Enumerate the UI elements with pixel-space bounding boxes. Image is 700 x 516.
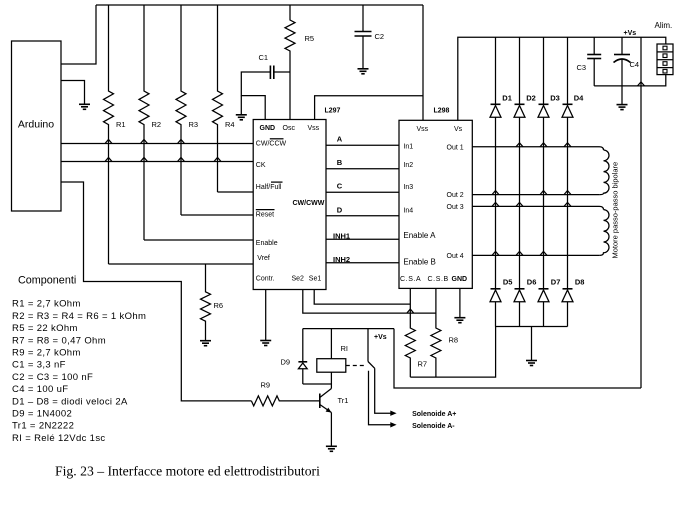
- svg-text:D8: D8: [575, 278, 585, 287]
- driver-chip L298 U2: [399, 120, 472, 288]
- resistor R3: [176, 5, 186, 215]
- wire connector bottom to C3 bottom: [594, 75, 666, 86]
- wire hop on C3 bottom wire at +Vs vertical: [638, 82, 645, 86]
- resistor R2: [139, 5, 149, 240]
- svg-text:R5 = 22 kOhm: R5 = 22 kOhm: [12, 323, 78, 334]
- ground (Contr.): [260, 341, 271, 346]
- wire Arduino top to +5V rail: [61, 5, 96, 64]
- wire Vss net L297 to L298: [315, 96, 423, 120]
- diode D1: [495, 37, 497, 104]
- diode D5: [491, 288, 501, 290]
- wire emitter to ground: [330, 413, 332, 447]
- wire hop on Out3 at D2: [516, 202, 523, 206]
- op-chip L297 U1: [253, 120, 326, 290]
- svg-text:C.S.B: C.S.B: [428, 276, 449, 283]
- svg-text:D1 – D8 = diodi veloci 2A: D1 – D8 = diodi veloci 2A: [12, 396, 128, 407]
- svg-text:+Vs: +Vs: [624, 30, 637, 37]
- svg-text:R2 = R3 = R4 = R6 = 1 kOhm: R2 = R3 = R4 = R6 = 1 kOhm: [12, 311, 146, 322]
- svg-text:Osc: Osc: [283, 125, 296, 132]
- diode D9 flyback: [302, 329, 304, 362]
- svg-text:Out 1: Out 1: [447, 144, 464, 151]
- svg-text:RI = Relé 12Vdc 1sc: RI = Relé 12Vdc 1sc: [12, 433, 106, 444]
- wire hop on Out4 at D2: [516, 251, 523, 255]
- svg-text:In4: In4: [403, 208, 413, 215]
- wire INH1 (L297 to L298 Enable A): [326, 238, 399, 240]
- svg-text:R2: R2: [152, 120, 162, 129]
- wire +V drop to switch pivot: [367, 329, 369, 362]
- svg-text:Componenti: Componenti: [18, 275, 76, 287]
- svg-text:D1: D1: [502, 94, 512, 103]
- node relay +V wire: [303, 328, 394, 330]
- wire D (L297 to L298 In4): [326, 215, 399, 217]
- diode D2: [519, 37, 521, 104]
- diode D8: [563, 288, 573, 290]
- svg-text:C.S.A: C.S.A: [400, 276, 421, 283]
- svg-text:R9 = 2,7 kOhm: R9 = 2,7 kOhm: [12, 348, 81, 359]
- wire hop on CK at R2: [141, 158, 148, 162]
- svg-text:Vs: Vs: [454, 126, 463, 133]
- Arduino board U-ARD: [12, 41, 62, 211]
- svg-text:R1: R1: [116, 120, 126, 129]
- svg-text:Se2: Se2: [292, 276, 305, 283]
- svg-text:C1 = 3,3 nF: C1 = 3,3 nF: [12, 360, 66, 371]
- node +5V top rail: [96, 4, 423, 6]
- svg-text:C1: C1: [259, 53, 269, 62]
- svg-text:Arduino: Arduino: [18, 119, 54, 131]
- ground (C4): [617, 105, 628, 110]
- wire hop on CK at R3: [178, 158, 185, 162]
- wire Contr. pin to ground: [265, 290, 267, 341]
- ground (C1 / L297 GND): [236, 115, 247, 120]
- svg-text:Out 3: Out 3: [447, 204, 464, 211]
- svg-text:Out 2: Out 2: [447, 192, 464, 199]
- resistor R1: [104, 5, 114, 264]
- svg-text:L298: L298: [434, 108, 450, 115]
- wire hop on CK at R1: [105, 158, 112, 162]
- wire hop on Out1 at D3: [540, 143, 547, 147]
- svg-text:R6: R6: [214, 301, 224, 310]
- resistor R9 (base): [251, 396, 319, 406]
- wire +Vs right vertical to bottom rail: [640, 37, 642, 388]
- svg-text:C4: C4: [630, 60, 640, 69]
- wire hop on Out4 at D1: [492, 251, 499, 255]
- svg-text:CW/CWW: CW/CWW: [293, 200, 325, 207]
- wire hop on Out2 at D3: [540, 191, 547, 195]
- wire hop on Out2 at D4: [564, 191, 571, 195]
- ground (C2): [358, 69, 369, 74]
- svg-text:C3: C3: [577, 63, 587, 72]
- svg-text:Half/Full: Half/Full: [256, 184, 282, 191]
- wire sense resistor return to diode bus: [410, 327, 495, 378]
- wire Se2 to C.S.B: [303, 290, 436, 314]
- svg-text:Motore passo-passo bipolare: Motore passo-passo bipolare: [611, 162, 620, 259]
- svg-text:D2: D2: [526, 94, 536, 103]
- svg-text:R5: R5: [305, 34, 315, 43]
- svg-text:Enable B: Enable B: [403, 257, 435, 266]
- svg-text:C4 = 100 uF: C4 = 100 uF: [12, 384, 68, 395]
- diode D3: [543, 37, 545, 104]
- wire hop on Out2 at D1: [492, 191, 499, 195]
- wire B (L297 to L298 In2): [326, 168, 399, 170]
- wire hop on Out3 at D4: [564, 202, 571, 206]
- svg-text:CK: CK: [256, 162, 266, 169]
- wire +5V rail down to Vss net: [422, 5, 424, 120]
- wire bus to ground: [531, 327, 533, 361]
- wire C1 left plate to GND pin and ground: [241, 72, 270, 120]
- svg-text:R7 = R8 = 0,47 Ohm: R7 = R8 = 0,47 Ohm: [12, 335, 106, 346]
- svg-text:In3: In3: [403, 184, 413, 191]
- wire switch to Solenoide A+: [375, 368, 391, 413]
- wire Arduino gnd stub: [61, 81, 85, 105]
- wire hop on Se2 wire at C.S.A: [407, 309, 414, 313]
- capacitor C1: [270, 66, 273, 80]
- svg-text:D9 = 1N4002: D9 = 1N4002: [12, 409, 72, 420]
- resistor R7 (C.S.A sense): [405, 288, 415, 377]
- diode D7: [539, 288, 549, 290]
- svg-text:Tr1: Tr1: [338, 396, 349, 405]
- component list: [12, 299, 146, 444]
- relay RI coil: [330, 329, 332, 359]
- connector Alim J1: [657, 44, 673, 75]
- svg-text:In2: In2: [403, 162, 413, 169]
- svg-text:D7: D7: [551, 278, 561, 287]
- diode D6: [515, 288, 525, 290]
- node +Vs top right rail: [458, 37, 666, 120]
- svg-text:A: A: [337, 135, 343, 144]
- wire switch to Solenoide A-: [369, 371, 391, 425]
- ground (Arduino): [79, 104, 90, 109]
- svg-text:R9: R9: [261, 381, 271, 390]
- wire Out2 to motor coil 1 bottom: [472, 194, 599, 196]
- wire R1 to Vref pin: [109, 263, 254, 265]
- svg-text:GND: GND: [260, 125, 276, 132]
- svg-text:Out 4: Out 4: [447, 253, 464, 260]
- wire hop on CW/CCW at R2: [141, 140, 148, 144]
- wire A (L297 to L298 In1): [326, 144, 399, 146]
- diode D4: [567, 37, 569, 104]
- svg-text:In1: In1: [403, 143, 413, 150]
- svg-text:C: C: [337, 182, 343, 191]
- switch blade (relay contact): [368, 362, 375, 369]
- svg-text:Reset: Reset: [256, 212, 274, 219]
- wire Out4 to motor coil 2 bottom: [472, 254, 599, 256]
- wire Se1 to C.S.A: [314, 290, 410, 305]
- ground (diode bus): [526, 361, 537, 366]
- svg-text:R3: R3: [189, 120, 199, 129]
- svg-text:Alim.: Alim.: [655, 21, 673, 30]
- inductor motor winding A: [599, 150, 609, 195]
- svg-text:D4: D4: [574, 94, 584, 103]
- svg-text:Tr1 = 2N2222: Tr1 = 2N2222: [12, 421, 74, 432]
- wire hop on CW/CCW at R3: [178, 140, 185, 144]
- wire C (L297 to L298 In3): [326, 191, 399, 193]
- svg-text:Vref: Vref: [257, 255, 270, 262]
- svg-text:B: B: [337, 158, 343, 167]
- wire bottom rail (relay +V): [394, 329, 641, 388]
- svg-text:D5: D5: [503, 278, 513, 287]
- capacitor C3: [593, 37, 595, 54]
- svg-text:Vss: Vss: [308, 125, 320, 132]
- wire hop on Out1 at D4: [564, 143, 571, 147]
- svg-text:C2 = C3 = 100 nF: C2 = C3 = 100 nF: [12, 372, 93, 383]
- wire Arduino output routed to R9 (around component list): [61, 182, 251, 401]
- svg-text:Se1: Se1: [309, 276, 322, 283]
- resistor R4: [213, 5, 223, 192]
- svg-text:D6: D6: [527, 278, 537, 287]
- inductor motor winding B: [599, 210, 609, 256]
- svg-text:Solenoide A+: Solenoide A+: [412, 411, 456, 418]
- svg-text:L297: L297: [325, 108, 341, 115]
- svg-text:Solenoide A-: Solenoide A-: [412, 423, 455, 430]
- wire R2 to Enable pin: [144, 239, 253, 241]
- transistor Tr1 2N2222: [319, 394, 321, 409]
- wire R4 to Half/Full pin: [218, 191, 254, 193]
- svg-text:Enable: Enable: [256, 240, 278, 247]
- svg-text:R4: R4: [225, 120, 235, 129]
- svg-text:D3: D3: [550, 94, 560, 103]
- resistor R5: [285, 5, 295, 120]
- svg-text:GND: GND: [452, 276, 468, 283]
- wire R3 to Reset pin: [181, 214, 253, 216]
- wire D9 to relay bottom / collector node: [303, 384, 332, 389]
- dashed mechanical link relay to switch: [346, 365, 365, 367]
- svg-text:R7: R7: [418, 360, 428, 369]
- svg-text:CW/CCW: CW/CCW: [256, 141, 287, 148]
- wire C1 right plate to R5/Osc net: [274, 71, 290, 73]
- ground (L298 GND): [454, 318, 465, 323]
- svg-text:R8: R8: [449, 336, 459, 345]
- wire L298 GND pin to ground: [459, 288, 461, 317]
- arrow Solenoide A+: [390, 411, 396, 416]
- wire Out1 to motor coil 1 top: [472, 147, 603, 150]
- wire CK line (Arduino to L297): [61, 161, 253, 163]
- svg-text:+Vs: +Vs: [374, 334, 387, 341]
- svg-text:R1 = 2,7 kOhm: R1 = 2,7 kOhm: [12, 299, 81, 310]
- wire hop on CW/CCW at R1: [105, 140, 112, 144]
- resistor R8 (C.S.B sense): [431, 288, 441, 377]
- svg-text:Contr.: Contr.: [256, 276, 275, 283]
- capacitor C2: [362, 5, 364, 32]
- wire Out3 to motor coil 2 top: [472, 206, 603, 209]
- svg-text:Enable A: Enable A: [403, 231, 436, 240]
- arrow Solenoide A-: [390, 422, 396, 427]
- svg-text:Vss: Vss: [417, 126, 429, 133]
- wire hop on Out3 at D1: [492, 202, 499, 206]
- svg-text:RI: RI: [341, 344, 349, 353]
- wire hop on Out1 at D2: [516, 143, 523, 147]
- svg-text:Fig. 23 – Interfacce motore ed: Fig. 23 – Interfacce motore ed elettrodi…: [55, 464, 320, 479]
- svg-text:C2: C2: [375, 32, 385, 41]
- node diode bottom bus: [496, 326, 568, 328]
- ground (Tr1 emitter): [326, 446, 337, 451]
- svg-text:D9: D9: [281, 358, 291, 367]
- svg-text:D: D: [337, 205, 343, 214]
- wire hop on CK at R4: [214, 158, 221, 162]
- ground (R6): [200, 341, 211, 346]
- wire CW/CCW line (Arduino to L297): [61, 143, 253, 145]
- capacitor C4 electrolytic: [621, 37, 623, 54]
- resistor R6: [201, 264, 211, 341]
- wire INH2 (L297 to L298 Enable B): [326, 262, 399, 264]
- wire hop on Out4 at D3: [540, 251, 547, 255]
